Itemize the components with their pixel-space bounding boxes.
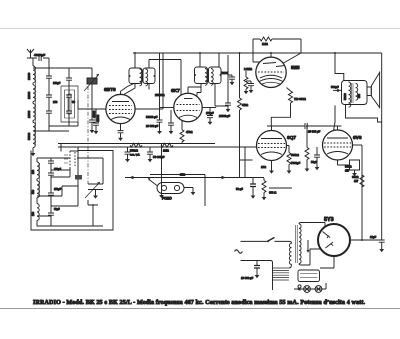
svg-text:50 000pF: 50 000pF — [153, 155, 165, 159]
svg-text:470Ω: 470Ω — [186, 130, 193, 134]
svg-text:5Y3: 5Y3 — [324, 217, 334, 223]
svg-text:50 μF: 50 μF — [236, 187, 243, 191]
svg-text:250pF: 250pF — [53, 81, 61, 85]
svg-text:10000: 10000 — [27, 110, 31, 118]
svg-text:10Ω: 10Ω — [261, 165, 266, 169]
svg-text:50pF: 50pF — [311, 160, 317, 164]
svg-text:IRRADIO - Modd. BK 25 e B: IRRADIO - Modd. BK 25 e BK 25/L - Media … — [33, 300, 366, 306]
svg-text:1W: 1W — [354, 179, 358, 183]
svg-text:250pF: 250pF — [54, 188, 62, 191]
svg-text:6K7: 6K7 — [171, 88, 180, 94]
svg-text:1MΩ: 1MΩ — [163, 149, 169, 153]
svg-text:50000: 50000 — [27, 132, 31, 140]
svg-text:6BT6: 6BT6 — [104, 87, 116, 93]
svg-text:6V8: 6V8 — [353, 135, 362, 141]
svg-text:300Ω: 300Ω — [345, 165, 352, 169]
svg-text:10000: 10000 — [27, 91, 31, 99]
svg-text:500kΩ: 500kΩ — [130, 149, 138, 153]
svg-text:500: 500 — [358, 93, 361, 98]
svg-text:25 000 pF: 25 000 pF — [308, 130, 320, 134]
svg-text:40000: 40000 — [96, 114, 100, 122]
svg-text:10000: 10000 — [27, 72, 31, 80]
svg-text:600Ω: 600Ω — [352, 175, 359, 179]
svg-text:1W: 1W — [345, 169, 349, 173]
svg-text:40000: 40000 — [92, 110, 96, 118]
svg-text:500kΩ: 500kΩ — [291, 153, 299, 157]
svg-text:47kΩ: 47kΩ — [242, 103, 248, 107]
svg-text:50000: 50000 — [344, 93, 347, 100]
svg-text:7000pF: 7000pF — [291, 161, 300, 165]
svg-text:10 000 pF: 10 000 pF — [241, 276, 253, 280]
svg-text:50: 50 — [72, 100, 75, 104]
svg-text:5E5: 5E5 — [291, 65, 300, 71]
svg-text:2.2MΩ: 2.2MΩ — [244, 67, 252, 71]
svg-text:16μF: 16μF — [370, 235, 377, 239]
svg-text:40000pF: 40000pF — [34, 53, 45, 57]
svg-text:50000 pF: 50000 pF — [146, 115, 158, 119]
svg-text:250pF: 250pF — [54, 168, 62, 171]
svg-text:500: 500 — [32, 189, 35, 194]
svg-text:acc. vol.: acc. vol. — [130, 153, 140, 157]
svg-text:50pF: 50pF — [54, 208, 60, 211]
svg-text:713 000Ω: 713 000Ω — [294, 97, 306, 101]
svg-text:10 000 pF: 10 000 pF — [146, 124, 158, 128]
svg-text:1MΩ: 1MΩ — [262, 42, 268, 46]
svg-text:6Q7: 6Q7 — [287, 135, 296, 141]
svg-text:250: 250 — [53, 100, 58, 104]
svg-text:500pF: 500pF — [331, 85, 339, 89]
svg-text:100: 100 — [32, 211, 35, 216]
svg-text:25000Ω: 25000Ω — [155, 93, 164, 97]
svg-text:100: 100 — [32, 169, 35, 174]
svg-text:FONO: FONO — [162, 197, 172, 201]
svg-text:50000: 50000 — [221, 71, 229, 75]
svg-text:600 Ω: 600 Ω — [269, 191, 276, 195]
svg-text:10000 pF: 10000 pF — [219, 114, 230, 118]
